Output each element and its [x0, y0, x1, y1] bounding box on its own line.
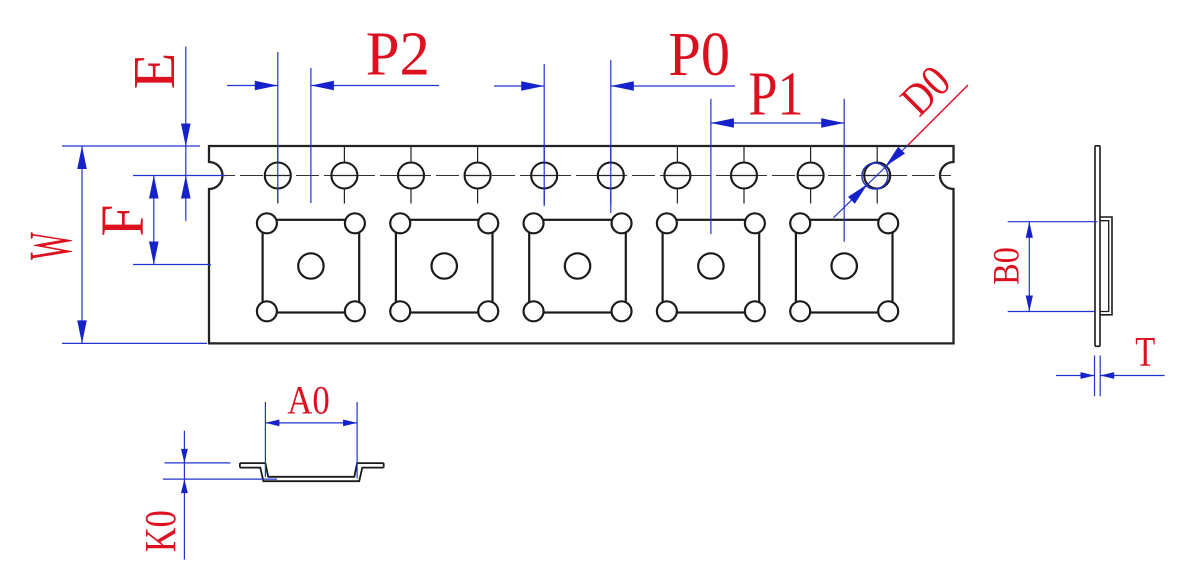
- svg-text:P1: P1: [748, 60, 803, 128]
- svg-text:A0: A0: [287, 380, 330, 424]
- svg-text:W: W: [18, 232, 86, 260]
- svg-text:P0: P0: [668, 21, 730, 90]
- svg-text:E: E: [121, 53, 186, 90]
- svg-text:P2: P2: [366, 20, 430, 89]
- svg-text:K0: K0: [136, 510, 185, 552]
- svg-text:F: F: [88, 205, 156, 237]
- svg-text:B0: B0: [987, 247, 1028, 285]
- svg-text:T: T: [1135, 329, 1155, 376]
